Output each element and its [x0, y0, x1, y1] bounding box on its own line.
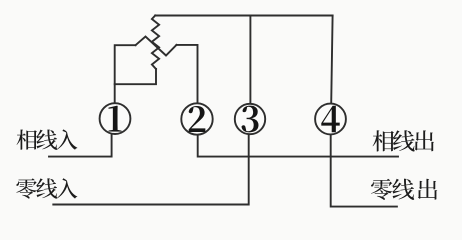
- terminal 2 circle: [181, 103, 212, 134]
- terminal 4 circle: [315, 104, 346, 135]
- wire: terminal 3 top riser: [249, 16, 251, 104]
- terminal digit 2: [189, 106, 206, 132]
- terminal digit 3: [241, 106, 258, 133]
- wire: terminal 2 down to phase-out line: [198, 135, 398, 157]
- wire: phase-in line to terminal 1: [49, 134, 112, 156]
- wire: terminal 4 down to neutral-out line: [331, 135, 397, 207]
- label: 相线出 (phase line out): [373, 130, 434, 151]
- wire: top bus from voltage coil to terminal 4 riser: [155, 15, 332, 17]
- coil L2: voltage coil (vertical zigzag): [152, 16, 159, 70]
- wire: terminal 1 riser through node A up to current coil left lead: [115, 45, 136, 103]
- coil L1: current coil (diagonal zigzag): [136, 37, 177, 56]
- terminal digit 1: [108, 106, 121, 132]
- wire: neutral-in line up to terminal 3: [53, 135, 248, 205]
- terminal 1 circle: [100, 103, 131, 134]
- wire: current coil right lead to terminal 2 riser: [177, 45, 198, 104]
- label: 零线入 (neutral line in): [16, 178, 77, 198]
- label: 相线入 (phase line in): [17, 129, 78, 149]
- label: 零线出 (neutral line out): [371, 179, 437, 200]
- terminal 3 circle: [235, 104, 265, 134]
- wire: voltage coil bottom lead down then left to node A: [115, 69, 156, 84]
- wire: terminal 4 top riser: [331, 16, 332, 104]
- terminal digit 4: [321, 106, 339, 133]
